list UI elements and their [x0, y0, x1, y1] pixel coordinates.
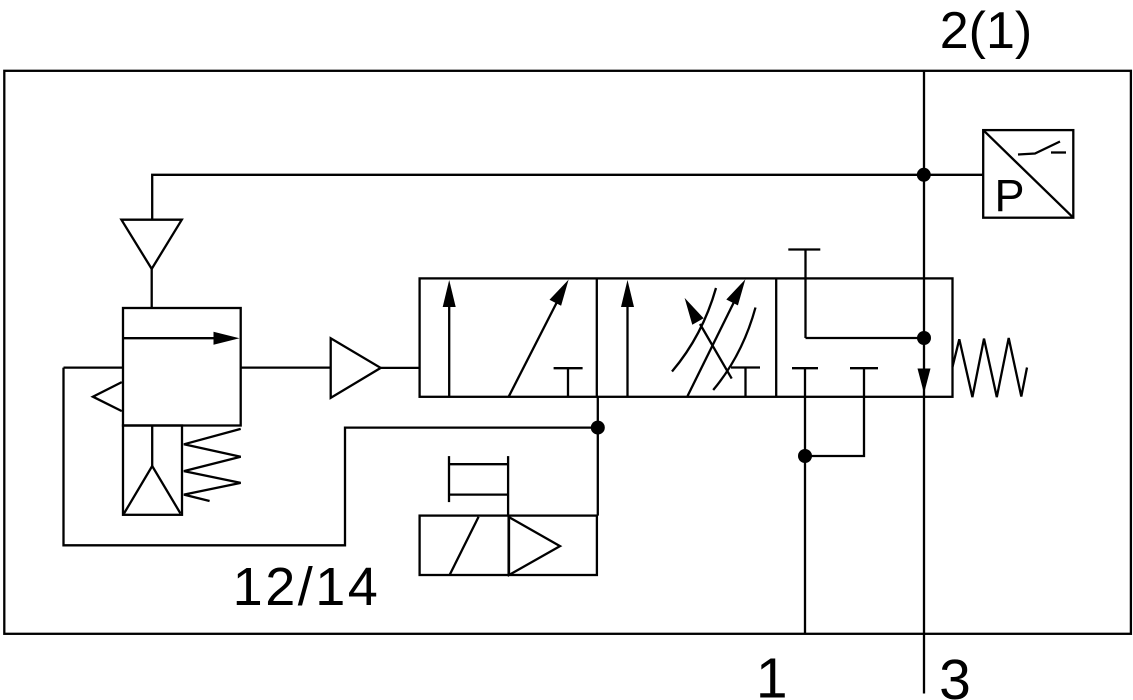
valve divider 2 — [775, 278, 777, 396]
regulator relief arrowhead — [93, 382, 122, 411]
sensor switch contact — [1018, 142, 1060, 155]
feedback wire 12/14 loop — [64, 368, 598, 546]
wire: regulator outlet — [241, 366, 331, 368]
svg-text:2(1): 2(1) — [940, 2, 1032, 60]
throttle arc left — [672, 288, 716, 372]
s1 diagonal flow arrow — [509, 301, 558, 397]
wire: funnel to regulator — [151, 269, 153, 308]
junction: sensor tap — [917, 168, 931, 182]
regulator spring — [184, 429, 241, 501]
s2 vertical flow arrow — [626, 303, 628, 397]
wire: regulator inlet left — [64, 366, 124, 368]
s3 internal passage — [806, 337, 925, 339]
s1 vertical flow arrow — [448, 303, 450, 397]
wire: pilot supply horizontal — [152, 175, 983, 220]
valve divider 1 — [596, 278, 598, 396]
wire: port 2/3 vertical line — [923, 71, 925, 694]
pilot valve body — [420, 516, 597, 575]
regulator flow arrow — [123, 337, 226, 339]
s1 blocked port — [554, 367, 583, 369]
s3 exhaust arrowhead — [918, 369, 931, 394]
s3 bottom blocked port right — [850, 367, 878, 369]
valve return spring — [953, 338, 1028, 397]
main valve body — [420, 278, 953, 396]
pilot right cell triangle — [509, 517, 560, 575]
svg-text:3: 3 — [939, 648, 971, 700]
junction: pilot link — [591, 421, 605, 435]
throttle adjust arrow — [700, 324, 732, 379]
svg-text:1: 1 — [756, 647, 788, 700]
regulator body — [123, 308, 241, 426]
s3 top blocked port — [788, 248, 820, 250]
svg-text:12/14: 12/14 — [233, 557, 381, 617]
throttle arc right — [713, 308, 755, 391]
manual override — [448, 456, 450, 502]
pressure sensor box — [983, 130, 1073, 218]
exhaust funnel triangle — [121, 220, 181, 269]
regulator lower chamber — [123, 426, 182, 515]
junction: passage to port 3 — [917, 331, 931, 345]
s3 bottom blocked port left — [792, 367, 818, 369]
wire: booster to valve — [381, 367, 420, 369]
s2 diagonal flow arrow — [688, 301, 735, 396]
s2 blocked port — [731, 366, 760, 368]
booster triangle — [331, 338, 381, 398]
wire: port 1 line — [804, 368, 806, 634]
junction: port 1 tap — [798, 449, 812, 463]
poppet triangle — [124, 466, 181, 514]
svg-text:P: P — [995, 170, 1025, 221]
pilot valve vertical link — [597, 397, 599, 516]
pilot left cell lever — [450, 517, 479, 575]
